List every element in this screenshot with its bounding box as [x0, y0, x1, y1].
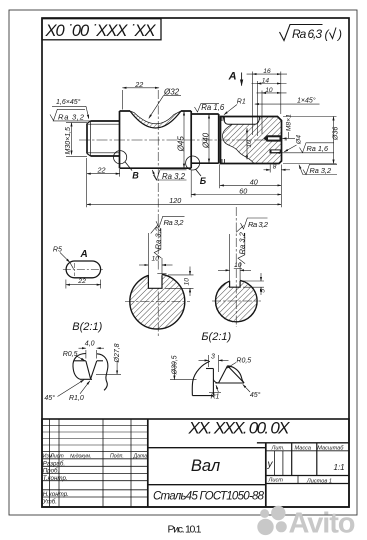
svg-text:ХХ. ХХХ. 00. 0Х: ХХ. ХХХ. 00. 0Х: [188, 419, 291, 438]
designation box top-left: [42, 19, 161, 40]
groove axis dash-dot long: [157, 90, 159, 337]
O4 leader: [284, 145, 296, 152]
svg-text:Ø40: Ø40: [201, 132, 210, 149]
svg-text:Ra 3,2: Ra 3,2: [248, 220, 269, 229]
M30x1,5 dim: [66, 123, 87, 157]
main view dim texts: [56, 68, 339, 205]
groove ball recess: [130, 111, 181, 128]
svg-text:Подп.: Подп.: [110, 453, 124, 459]
break wavy line: [223, 124, 254, 163]
svg-text:Т.контр.: Т.контр.: [43, 475, 68, 482]
22 groove top: [122, 88, 159, 110]
svg-text:В(2:1): В(2:1): [72, 321, 102, 333]
svg-text:Ra 3,2: Ra 3,2: [162, 172, 186, 181]
svg-text:16: 16: [263, 68, 271, 75]
svg-text:Ø39,5: Ø39,5: [172, 355, 179, 375]
keyway slot side view: [224, 117, 260, 124]
svg-text:5: 5: [259, 289, 266, 293]
svg-text:Ø45: Ø45: [176, 136, 185, 153]
B(Б) circle right: [186, 156, 201, 176]
hole bars: [264, 135, 282, 141]
centerline: [79, 139, 289, 141]
svg-text:Ø27,8: Ø27,8: [114, 343, 121, 363]
svg-text:Ø4: Ø4: [296, 135, 303, 145]
svg-text:Х0 ˙00 ˙ХХХ ˙ХХ: Х0 ˙00 ˙ХХХ ˙ХХ: [45, 22, 157, 40]
right piece d36 with section: [221, 117, 282, 164]
header + rows: [42, 452, 148, 497]
designation cell bottoms: [148, 447, 266, 449]
right part: [265, 443, 267, 507]
svg-text:В: В: [132, 171, 139, 181]
svg-text:Масса: Масса: [295, 445, 312, 451]
outer: [42, 419, 349, 507]
B circle: [114, 151, 133, 171]
svg-text:А: А: [228, 71, 237, 83]
Ra 3,2 right bottom flag: [299, 164, 337, 174]
svg-text:Ra 1,6: Ra 1,6: [307, 144, 329, 153]
svg-text:60: 60: [239, 186, 247, 195]
middle section d45: [120, 111, 192, 168]
O36 dim: [283, 117, 337, 164]
svg-text:10: 10: [183, 278, 190, 286]
left section right edge: [147, 419, 149, 507]
svg-text:22: 22: [134, 80, 143, 89]
svg-text:10: 10: [265, 87, 273, 94]
svg-text:10: 10: [152, 255, 160, 262]
svg-text:R1,0: R1,0: [69, 395, 84, 402]
O32 leader: [164, 95, 182, 97]
svg-text:А: А: [80, 249, 88, 260]
svg-text:Б: Б: [200, 176, 207, 186]
svg-text:R1: R1: [211, 394, 220, 401]
svg-text:Ra 1,6: Ra 1,6: [201, 103, 225, 112]
svg-text:1×45°: 1×45°: [297, 97, 316, 105]
svg-text:Ra 3,2: Ra 3,2: [58, 113, 85, 122]
watermark: [257, 506, 355, 540]
title block texts: [42, 419, 345, 506]
svg-text:R0,5: R0,5: [63, 351, 78, 358]
dims 16/14/10: [247, 72, 287, 137]
M8x1 leader: [283, 132, 296, 138]
A arrow: [241, 73, 243, 86]
svg-text:Лит.: Лит.: [271, 445, 285, 451]
svg-text:Вал: Вал: [191, 457, 220, 475]
svg-text:14: 14: [262, 78, 270, 85]
svg-text:10: 10: [234, 262, 242, 269]
svg-text:1:1: 1:1: [334, 463, 345, 472]
Ra 3,2 thread: [50, 109, 91, 121]
svg-text:1,6×45°: 1,6×45°: [56, 98, 81, 106]
thread section M30: [87, 121, 120, 156]
d40 section: [191, 114, 219, 163]
svg-text:8: 8: [273, 163, 277, 170]
svg-text:Утб.: Утб.: [42, 499, 57, 506]
material cell top: [148, 484, 266, 486]
svg-text:Дата: Дата: [133, 453, 148, 459]
groove B marks: [222, 117, 225, 164]
22 thread length: [87, 158, 120, 207]
1x45 leader: [255, 103, 320, 105]
svg-text:22: 22: [97, 165, 106, 174]
8 dim: [264, 165, 291, 173]
svg-text:Листов 1: Листов 1: [306, 479, 332, 485]
svg-text:Б(2:1): Б(2:1): [201, 331, 231, 343]
Ra 1,6 d40: [195, 104, 220, 112]
svg-text:22: 22: [77, 278, 86, 285]
O40 dim: [208, 115, 210, 163]
R1 leader: [224, 105, 237, 115]
svg-text:3: 3: [211, 353, 215, 360]
svg-text:40: 40: [250, 177, 258, 186]
upper thin rows: [42, 425, 148, 445]
svg-text:Н.контр.: Н.контр.: [43, 491, 69, 498]
svg-text:Ra 3,2: Ra 3,2: [164, 218, 185, 227]
svg-text:Avito: Avito: [289, 508, 356, 540]
svg-text:R0,5: R0,5: [236, 357, 251, 364]
O45 dim: [183, 112, 185, 168]
svg-text:Проб.: Проб.: [43, 468, 60, 475]
columns: [50, 419, 132, 507]
svg-text:R5: R5: [53, 247, 62, 254]
svg-text:45°: 45°: [44, 394, 55, 402]
svg-text:Рис. 10.1: Рис. 10.1: [168, 524, 202, 536]
svg-text:Разраб.: Разраб.: [43, 460, 65, 467]
drawing frame: [42, 18, 349, 507]
svg-text:Масштаб: Масштаб: [317, 445, 344, 451]
10 internal vertical: [246, 128, 248, 159]
hatch of local section: [223, 117, 282, 164]
svg-text:М30×1,5: М30×1,5: [65, 127, 72, 155]
svg-text:Ø32: Ø32: [163, 87, 180, 96]
svg-text:М8×1: М8×1: [286, 114, 293, 131]
svg-text:Ra 6,3: Ra 6,3: [292, 27, 322, 41]
svg-text:120: 120: [169, 196, 181, 205]
svg-text:Лист: Лист: [268, 478, 284, 484]
svg-text:у: у: [267, 459, 274, 470]
svg-text:10: 10: [246, 140, 253, 148]
svg-text:45°: 45°: [250, 391, 261, 399]
chamfer 1.6x45 label: [52, 106, 89, 118]
svg-text:№докум.: №докум.: [70, 453, 91, 459]
svg-text:Лист: Лист: [49, 453, 64, 459]
roughness general top right: [280, 25, 343, 42]
svg-text:R1: R1: [237, 98, 246, 105]
40 / 60 / 120 dims: [87, 165, 282, 208]
svg-text:Сталь45 ГОСТ1050-88: Сталь45 ГОСТ1050-88: [153, 491, 265, 503]
svg-text:Ø36: Ø36: [332, 127, 339, 141]
Ra 1,6 hole leader: [276, 143, 334, 153]
svg-text:Ra 3,2: Ra 3,2: [310, 166, 332, 175]
svg-text:4,0: 4,0: [85, 341, 95, 348]
Ra 3,2 bottom middle flag: [152, 170, 186, 180]
